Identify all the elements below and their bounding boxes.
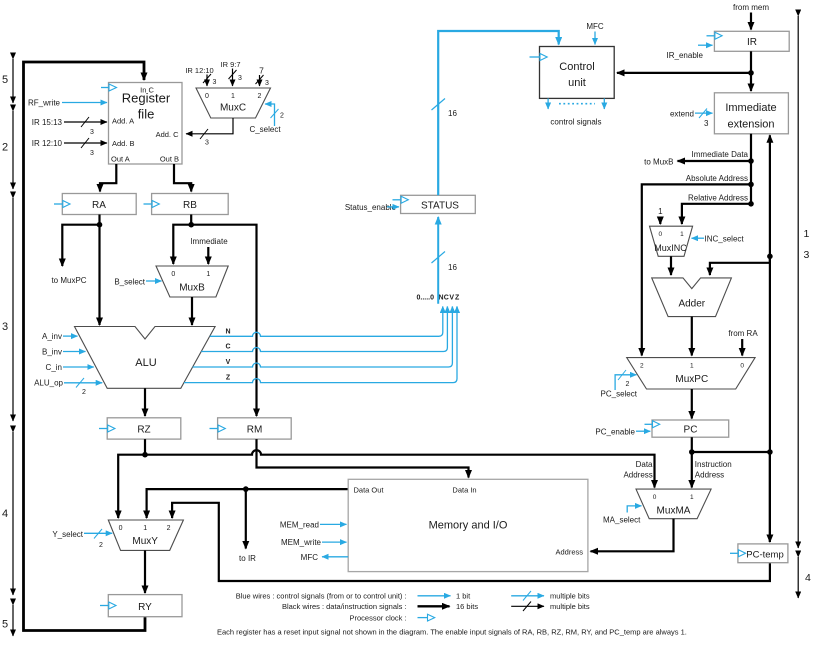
svg-text:C_select: C_select [249, 125, 281, 134]
signal Status_enable [345, 203, 399, 212]
clock input RB [144, 201, 160, 208]
signal MFC into control unit [586, 22, 604, 45]
register PC-temp [738, 544, 788, 563]
svg-text:MuxINC: MuxINC [654, 243, 687, 253]
label 5 [2, 619, 8, 631]
wire Immediate into MuxB pin 1 [190, 237, 228, 264]
label 4 [2, 508, 8, 520]
svg-text:MFC: MFC [586, 22, 604, 31]
wire ALU flag C to status bundle [201, 307, 447, 352]
signal IR 15:13 to Add. A [32, 117, 107, 136]
svg-text:Data: Data [636, 460, 653, 469]
stage marker 3 [12, 198, 14, 421]
label 4 [805, 572, 811, 584]
svg-text:IR 12:10: IR 12:10 [185, 66, 213, 75]
svg-text:Data Out: Data Out [354, 486, 385, 495]
svg-text:C: C [225, 344, 230, 351]
svg-text:C: C [444, 295, 449, 302]
wire PC output to MuxMA pin 1 [691, 437, 693, 487]
label 3 [2, 321, 8, 333]
svg-text:extension: extension [727, 119, 774, 131]
wire MuxB output to ALU input B [191, 297, 193, 325]
svg-text:0.....0: 0.....0 [417, 295, 435, 302]
register STATUS [401, 195, 476, 213]
wire from RA into MuxPC pin 0 [728, 329, 758, 356]
svg-text:to MuxPC: to MuxPC [51, 276, 86, 285]
register file [109, 83, 183, 165]
svg-text:1: 1 [658, 207, 663, 216]
mux MuxINC [650, 226, 693, 256]
wire RZ output junction [144, 439, 146, 455]
svg-text:PC_select: PC_select [601, 390, 638, 399]
mux MuxB [156, 266, 228, 297]
svg-text:Out B: Out B [160, 155, 179, 164]
memory Memory and I/O [348, 479, 588, 571]
svg-text:Control: Control [559, 61, 594, 73]
signal MEM_read [280, 521, 347, 530]
svg-text:1: 1 [690, 494, 694, 501]
svg-text:Out A: Out A [111, 155, 130, 164]
clock input control unit [530, 54, 548, 61]
svg-text:RB: RB [183, 200, 197, 211]
wire RM output to memory Data In [257, 439, 469, 477]
signal A_inv [42, 332, 78, 341]
wire status bundle to STATUS register [432, 217, 458, 304]
svg-text:IR 15:13: IR 15:13 [32, 118, 63, 127]
svg-text:2: 2 [280, 113, 284, 120]
label C [225, 344, 230, 351]
svg-text:3: 3 [90, 150, 94, 157]
svg-text:Black wires : data/instruction: Black wires : data/instruction signals : [282, 602, 407, 611]
svg-text:1: 1 [143, 525, 147, 532]
svg-text:MA_select: MA_select [603, 516, 641, 525]
wire RZ to MuxMA data address [145, 450, 655, 487]
svg-text:to MuxB: to MuxB [644, 158, 673, 167]
legend processor clock row [349, 613, 434, 622]
signal ALU_op [34, 378, 102, 396]
wire branch to Adder right input [710, 256, 770, 275]
label Absolute Address [686, 174, 748, 183]
svg-text:Immediate: Immediate [190, 237, 228, 246]
svg-text:PC_enable: PC_enable [595, 428, 635, 437]
svg-text:MFC: MFC [301, 553, 319, 562]
wire IR 12:10 into MuxC pin 0 [185, 66, 216, 86]
svg-text:PC-temp: PC-temp [746, 550, 783, 561]
svg-text:Memory and I/O: Memory and I/O [429, 520, 508, 532]
label 3 [804, 249, 810, 261]
clock input PC-temp [730, 550, 746, 557]
signal B_inv [42, 348, 86, 357]
svg-text:IR: IR [747, 37, 757, 48]
wire ALU flag Z to status bundle [184, 307, 457, 383]
signal INC_select into MuxINC [692, 235, 745, 244]
svg-text:Adder: Adder [678, 299, 705, 310]
svg-text:Absolute Address: Absolute Address [686, 174, 748, 183]
svg-text:5: 5 [2, 619, 8, 631]
wire branch to MuxPC [51, 225, 99, 285]
signal C_in [46, 363, 94, 372]
wire ALU output to RZ [144, 388, 146, 416]
svg-text:RY: RY [138, 602, 152, 613]
svg-text:RA: RA [92, 200, 106, 211]
signal PC_select into MuxPC [601, 370, 638, 399]
wire Out B to RB [174, 164, 191, 192]
svg-text:Relative Address: Relative Address [688, 194, 748, 203]
node feedback junction [767, 449, 773, 455]
svg-text:3: 3 [213, 79, 217, 86]
wire to MuxB [644, 158, 751, 167]
label V [226, 359, 231, 366]
svg-text:A_inv: A_inv [42, 332, 62, 341]
mux MuxPC [627, 358, 755, 389]
wire MuxMA output to memory Address [591, 519, 674, 552]
wire RZ branch to MuxY pin 0 [118, 455, 145, 518]
label Instruction Address [695, 460, 732, 480]
wire branch to IR [239, 489, 256, 563]
svg-text:INC_select: INC_select [705, 235, 745, 244]
op-amp ALU [75, 327, 216, 389]
svg-text:Instruction: Instruction [695, 460, 732, 469]
svg-text:Address: Address [623, 471, 652, 480]
signal C_select into MuxC [249, 104, 284, 134]
svg-text:RF_write: RF_write [28, 99, 61, 108]
svg-text:3: 3 [265, 80, 269, 87]
legend black wires row [282, 602, 590, 612]
node relative address junction [748, 201, 754, 207]
wire PC feedback vertical [769, 135, 771, 542]
label 2 [2, 142, 8, 154]
svg-text:16: 16 [448, 263, 457, 272]
svg-text:3: 3 [704, 119, 709, 128]
svg-text:2: 2 [99, 542, 103, 549]
svg-text:Add. B: Add. B [112, 139, 135, 148]
svg-text:7: 7 [259, 66, 264, 76]
svg-text:extend: extend [670, 110, 694, 119]
svg-text:unit: unit [568, 77, 586, 89]
svg-text:V: V [226, 359, 231, 366]
svg-text:2: 2 [82, 389, 86, 396]
clock input RM [210, 425, 226, 432]
svg-text:Address: Address [695, 471, 724, 480]
node RA junction [97, 222, 103, 228]
wire writeback loop RY to Register file In C [24, 62, 146, 631]
label Relative Address [688, 194, 748, 203]
svg-text:MuxC: MuxC [220, 103, 246, 114]
wire PC-temp to MuxY pin 2 [172, 503, 770, 581]
wire RA output down to ALU input A [98, 215, 100, 326]
wire ALU flag N to status bundle [210, 307, 443, 337]
clock input register file [101, 84, 117, 91]
wire MuxC output to Add. C [186, 118, 233, 147]
svg-text:2: 2 [167, 525, 171, 532]
legend blue wires row [236, 591, 590, 601]
svg-text:IR 12:10: IR 12:10 [32, 139, 63, 148]
label N [225, 329, 230, 336]
wire Out A to RA [100, 164, 116, 192]
signal extend [670, 109, 713, 129]
svg-text:control signals: control signals [550, 118, 601, 127]
svg-text:5: 5 [2, 74, 8, 86]
wire feedback to PC-temp [769, 452, 771, 542]
svg-text:ALU: ALU [135, 357, 156, 369]
svg-text:C_in: C_in [46, 363, 62, 372]
control unit U1 [540, 47, 615, 99]
node adder branch junction [767, 253, 773, 259]
svg-text:0: 0 [740, 363, 744, 370]
svg-text:B_inv: B_inv [42, 348, 62, 357]
svg-text:N: N [225, 329, 230, 336]
wire PC junction to feedback line [692, 451, 770, 453]
svg-text:Immediate Data: Immediate Data [692, 150, 749, 159]
label Immediate Data [692, 150, 749, 159]
svg-text:1: 1 [690, 363, 694, 370]
svg-text:B_select: B_select [114, 278, 145, 287]
svg-text:4: 4 [805, 572, 811, 584]
wire IR output down [750, 51, 752, 91]
clock input PC [645, 421, 660, 428]
svg-text:0: 0 [205, 93, 209, 100]
svg-text:PC: PC [684, 425, 698, 436]
svg-text:MEM_read: MEM_read [280, 521, 319, 530]
svg-text:IR_enable: IR_enable [667, 51, 704, 60]
svg-text:MuxB: MuxB [179, 283, 205, 294]
wire immediate extension output [750, 134, 752, 204]
svg-text:MuxMA: MuxMA [657, 506, 691, 517]
svg-text:MEM_write: MEM_write [281, 538, 322, 547]
register RB [152, 194, 229, 215]
svg-text:from RA: from RA [728, 329, 758, 338]
stage marker 4 [12, 432, 14, 595]
svg-text:0: 0 [171, 271, 175, 278]
svg-text:2: 2 [2, 142, 8, 154]
svg-text:1: 1 [231, 93, 235, 100]
mux MuxMA [636, 489, 711, 519]
wire constant 7 into MuxC pin 2 [256, 66, 270, 88]
wire IR to control unit [617, 72, 751, 74]
svg-text:0: 0 [119, 525, 123, 532]
svg-text:from mem: from mem [733, 3, 769, 12]
stage marker 1 3 (right) [797, 16, 799, 548]
signal Y_select into MuxY [52, 529, 112, 549]
svg-text:file: file [138, 107, 155, 122]
wire Adder output to MuxPC pin 1 [691, 317, 693, 356]
svg-text:Immediate: Immediate [725, 102, 776, 114]
signal from mem into IR [733, 3, 769, 30]
signal RF_write [28, 99, 107, 108]
wire MuxPC output to PC [691, 389, 693, 419]
svg-text:0: 0 [653, 494, 657, 501]
label flags row 0.....0 N C V Z [417, 295, 461, 302]
control signals outputs [548, 98, 604, 126]
label Data Address [623, 460, 653, 480]
svg-text:2: 2 [258, 93, 262, 100]
svg-text:RZ: RZ [137, 425, 150, 436]
stage marker 5 (top left) [12, 59, 14, 103]
clock input IR [707, 32, 723, 39]
svg-text:Z: Z [455, 295, 460, 302]
wire RB output to MuxB pin 0 [173, 215, 191, 265]
svg-text:MuxPC: MuxPC [675, 374, 708, 385]
svg-text:ALU_op: ALU_op [34, 379, 63, 388]
signal MEM_write [281, 538, 347, 547]
node IR junction [748, 70, 754, 76]
wire flag arrows into bundle [443, 307, 457, 311]
register RY [108, 595, 182, 617]
wire constant 1 into MuxINC pin 0 [658, 207, 663, 224]
svg-text:Data In: Data In [452, 486, 476, 495]
signal MFC from memory [301, 553, 349, 562]
svg-text:Each register has a reset inpu: Each register has a reset input signal n… [217, 628, 687, 637]
svg-text:3: 3 [205, 140, 209, 147]
register RZ [107, 418, 181, 439]
wire MuxY output to RY [144, 550, 146, 593]
svg-text:STATUS: STATUS [421, 201, 459, 212]
wire RB branch to RM [191, 225, 256, 416]
svg-text:RM: RM [247, 425, 263, 436]
svg-text:1: 1 [680, 231, 684, 238]
signal IR 12:10 to Add. B [32, 138, 107, 157]
svg-text:V: V [449, 295, 454, 302]
signal PC_enable [595, 428, 650, 437]
adder [652, 278, 732, 317]
signal IR_enable [667, 45, 713, 60]
svg-text:MuxY: MuxY [132, 536, 158, 547]
svg-text:multiple bits: multiple bits [550, 602, 590, 611]
node PC junction [689, 449, 695, 455]
clock input STATUS [393, 196, 409, 203]
clock input RY [100, 602, 116, 609]
clock input RA [54, 201, 70, 208]
svg-text:Processor clock :: Processor clock : [349, 613, 406, 622]
node RB junction [188, 222, 194, 228]
wire IR 9:7 into MuxC pin 1 [220, 60, 242, 86]
stage marker 2 [12, 111, 14, 189]
wire memory Data Out to MuxY pin 1 [147, 489, 349, 518]
register IR [714, 31, 789, 51]
wire MuxINC output to Adder [670, 256, 672, 275]
clock input RZ [99, 425, 115, 432]
wire ALU flag V to status bundle [193, 307, 453, 368]
node immediate data junction [748, 158, 754, 164]
signal B_select into MuxB [114, 278, 161, 287]
svg-text:Register: Register [122, 91, 171, 106]
svg-text:Blue wires : control signals (: Blue wires : control signals (from or to… [236, 592, 407, 601]
register RA [62, 194, 136, 215]
svg-text:Add. C: Add. C [156, 130, 180, 139]
svg-text:Z: Z [226, 375, 231, 382]
label 5 [2, 74, 8, 86]
mux MuxY [108, 520, 183, 550]
label Z [226, 375, 231, 382]
node RZ junction [142, 452, 148, 458]
wire absolute address to MuxPC pin 2 [642, 184, 751, 355]
wire STATUS to Control unit [432, 31, 559, 195]
svg-text:16 bits: 16 bits [456, 602, 478, 611]
svg-text:Add. A: Add. A [112, 117, 134, 126]
wire relative address to MuxINC pin 1 [682, 204, 751, 224]
svg-text:N: N [438, 295, 443, 302]
svg-text:16: 16 [448, 109, 457, 118]
svg-text:to IR: to IR [239, 554, 256, 563]
svg-text:4: 4 [2, 508, 8, 520]
signal MA_select into MuxMA [603, 506, 642, 525]
svg-text:multiple bits: multiple bits [550, 592, 590, 601]
register RM [218, 418, 292, 439]
svg-text:0: 0 [658, 231, 662, 238]
mux MuxC [196, 88, 271, 118]
svg-text:1: 1 [804, 228, 810, 240]
svg-text:2: 2 [640, 363, 644, 370]
svg-text:1 bit: 1 bit [456, 592, 471, 601]
svg-text:3: 3 [804, 249, 810, 261]
stage marker 5 (bottom left) [12, 605, 14, 636]
node Data Out junction [243, 486, 249, 492]
register PC [652, 420, 729, 437]
label 1 [804, 228, 810, 240]
node absolute address junction [748, 182, 754, 188]
svg-text:IR 9:7: IR 9:7 [220, 60, 240, 69]
svg-text:3: 3 [2, 321, 8, 333]
svg-text:3: 3 [238, 75, 242, 82]
svg-text:3: 3 [90, 129, 94, 136]
svg-text:2: 2 [626, 381, 630, 388]
legend note row [217, 628, 687, 637]
svg-text:Y_select: Y_select [52, 530, 83, 539]
immediate extension block [714, 93, 788, 134]
stage marker 4 (right) [797, 557, 799, 598]
svg-text:1: 1 [206, 271, 210, 278]
svg-text:Address: Address [555, 548, 583, 557]
